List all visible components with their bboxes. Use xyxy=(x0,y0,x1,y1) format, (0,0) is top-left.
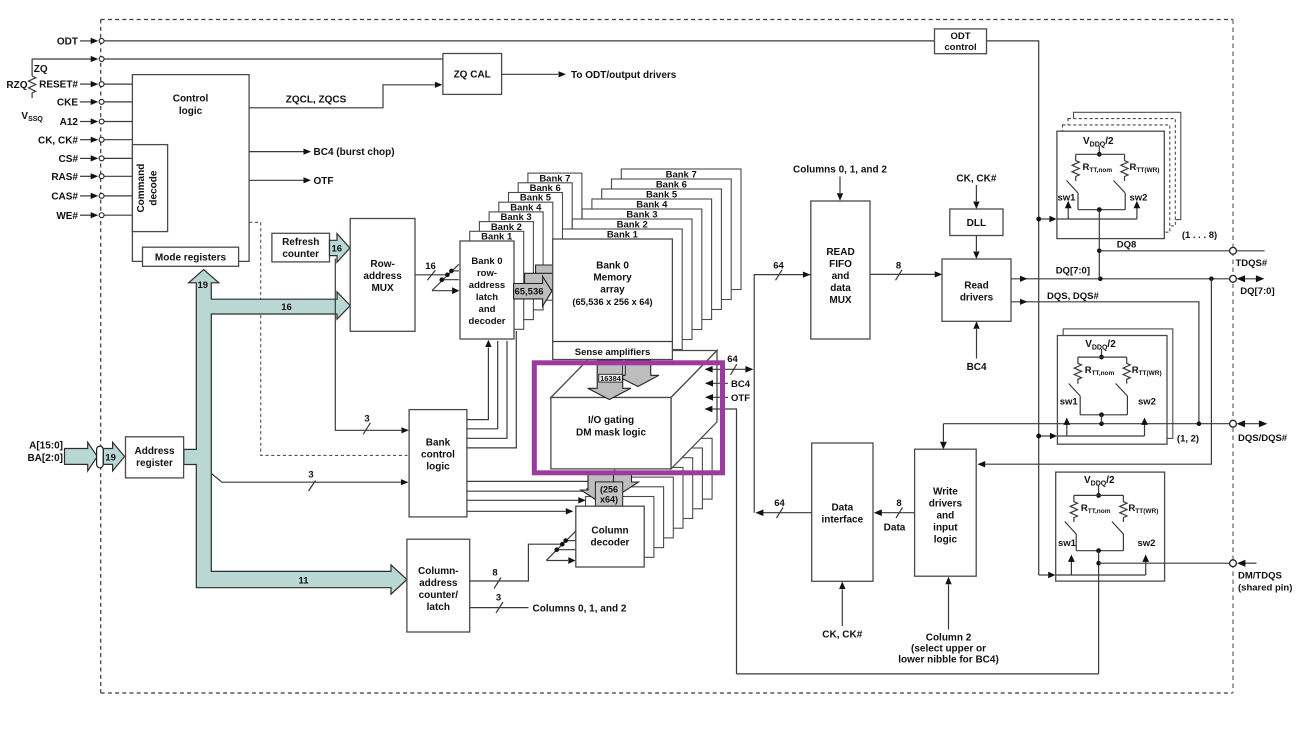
svg-text:address: address xyxy=(469,280,505,291)
circuit3 switch sw2 xyxy=(1112,522,1156,551)
wire ZQCL ZQCS to ZQ CAL xyxy=(249,82,442,108)
svg-text:19: 19 xyxy=(198,280,209,291)
svg-text:counter: counter xyxy=(282,249,319,260)
wire 64 into read fifo xyxy=(773,260,810,280)
svg-text:Bank 1: Bank 1 xyxy=(607,229,639,240)
svg-text:decoder: decoder xyxy=(591,538,630,549)
svg-text:data: data xyxy=(830,283,851,294)
svg-text:ZQ: ZQ xyxy=(34,64,48,75)
pin CS# xyxy=(59,154,133,165)
svg-text:(1, 2): (1, 2) xyxy=(1177,434,1199,445)
IO gating DM mask logic 3D block xyxy=(551,351,717,469)
circuit1 bottom node xyxy=(1078,207,1125,212)
svg-text:DLL: DLL xyxy=(967,218,986,229)
svg-text:DQS/DQS#: DQS/DQS# xyxy=(1238,433,1288,444)
svg-text:Bank: Bank xyxy=(426,438,451,449)
svg-text:logic: logic xyxy=(179,106,203,117)
svg-text:BC4 (burst chop): BC4 (burst chop) xyxy=(314,147,395,158)
svg-text:CK, CK#: CK, CK# xyxy=(956,174,996,185)
pin CKE xyxy=(57,98,133,109)
svg-text:Refresh: Refresh xyxy=(282,237,319,248)
svg-text:OTF: OTF xyxy=(731,393,750,404)
mode registers block xyxy=(143,247,239,266)
bank stack labels latch side xyxy=(481,173,570,242)
circuit1 top rail xyxy=(1076,153,1125,155)
svg-text:input: input xyxy=(933,523,958,534)
svg-text:sw2: sw2 xyxy=(1130,193,1148,204)
svg-text:ZQ CAL: ZQ CAL xyxy=(454,70,491,81)
termination circuit 3 box xyxy=(1056,472,1165,581)
svg-text:Address: Address xyxy=(134,446,174,457)
svg-text:BA[2:0]: BA[2:0] xyxy=(27,453,63,464)
wire to ODT output drivers xyxy=(502,70,677,81)
svg-text:interface: interface xyxy=(821,515,863,526)
DLL block xyxy=(950,209,1003,236)
termination circuit 1 box xyxy=(1057,131,1164,238)
circuit1 resistor RTTnom xyxy=(1072,154,1079,181)
svg-text:Column-: Column- xyxy=(418,566,459,577)
svg-text:Mode registers: Mode registers xyxy=(155,253,227,264)
svg-text:Bank 0: Bank 0 xyxy=(471,256,502,267)
svg-text:decode: decode xyxy=(149,170,160,205)
bank control logic block xyxy=(409,410,467,517)
pad TDQS# xyxy=(1230,247,1268,268)
svg-text:Read: Read xyxy=(964,281,988,292)
svg-text:decoder: decoder xyxy=(469,316,506,327)
svg-text:MUX: MUX xyxy=(829,295,852,306)
svg-text:logic: logic xyxy=(426,462,450,473)
svg-text:3: 3 xyxy=(364,413,369,424)
svg-text:Columns 0, 1, and 2: Columns 0, 1, and 2 xyxy=(793,165,887,176)
wire CK CK# into DLL xyxy=(956,174,996,210)
circuit1 VDDQ/2 xyxy=(1083,136,1114,157)
input arrow A[15:0] BA[2:0] xyxy=(27,440,97,471)
svg-text:row-: row- xyxy=(477,268,497,279)
ZQ CAL block xyxy=(443,54,502,95)
circuit1 enable wire and up arrows xyxy=(1036,201,1140,222)
circuit1 resistor RTTWR xyxy=(1121,154,1128,181)
svg-text:Column: Column xyxy=(591,526,628,537)
svg-text:TDQS#: TDQS# xyxy=(1236,258,1268,269)
svg-text:Column 2: Column 2 xyxy=(926,633,972,644)
svg-text:x64): x64) xyxy=(600,495,618,505)
svg-text:16: 16 xyxy=(425,261,436,272)
svg-text:64: 64 xyxy=(774,498,785,509)
svg-text:RESET#: RESET# xyxy=(39,80,78,91)
svg-text:To ODT/output drivers: To ODT/output drivers xyxy=(571,70,677,81)
wire BC4 into read drivers xyxy=(967,321,987,373)
svg-text:Write: Write xyxy=(933,487,958,498)
svg-text:RAS#: RAS# xyxy=(51,172,78,183)
svg-text:A[15:0]: A[15:0] xyxy=(29,440,63,451)
svg-text:3: 3 xyxy=(308,470,313,481)
circuit1 switch sw1 xyxy=(1058,181,1079,210)
bank select wires to latch stack xyxy=(467,331,516,448)
bank0 latch text xyxy=(469,256,506,327)
pin RESET# xyxy=(39,80,132,91)
65536 bus arrows latch to array xyxy=(514,258,574,306)
svg-text:16: 16 xyxy=(281,302,292,313)
pin A12 xyxy=(60,117,133,128)
svg-text:CK, CK#: CK, CK# xyxy=(822,630,862,641)
svg-text:and: and xyxy=(937,511,955,522)
bank row latch stack planes 7..1 xyxy=(470,173,582,329)
svg-text:CS#: CS# xyxy=(59,154,79,165)
svg-text:array: array xyxy=(600,285,625,296)
circuit3 center tap to DM line xyxy=(1096,551,1101,674)
refresh to row mux teal arrow 16 xyxy=(330,234,350,263)
dashed control path to bank control xyxy=(249,222,407,455)
svg-text:DQ[7:0]: DQ[7:0] xyxy=(1056,265,1090,276)
termination circuit 2 back layer xyxy=(1063,329,1173,439)
svg-text:19: 19 xyxy=(105,452,116,463)
circuit1 switch sw2 xyxy=(1114,181,1148,210)
column address counter latch block xyxy=(407,539,470,632)
DQ8 line to TDQS# pad xyxy=(1099,239,1264,251)
circuit3 enable wire and up arrows xyxy=(1039,555,1149,579)
svg-text:control: control xyxy=(421,450,455,461)
svg-text:(shared pin): (shared pin) xyxy=(1238,583,1292,594)
circuit3 switch sw1 xyxy=(1058,522,1077,551)
svg-text:64: 64 xyxy=(773,260,784,271)
svg-text:ODT: ODT xyxy=(57,37,78,48)
svg-text:READ: READ xyxy=(826,247,854,258)
circuit3 top rail xyxy=(1074,494,1124,496)
pad DQS/DQS# xyxy=(1230,420,1288,444)
termination stack layer 2 dashed xyxy=(1063,125,1170,232)
svg-text:drivers: drivers xyxy=(929,499,963,510)
wire 64 bidirectional IO gating to data bus xyxy=(705,354,754,375)
wire DQS into write drivers top xyxy=(940,424,947,450)
wire 64 data interface to bus xyxy=(755,498,811,518)
svg-text:BC4: BC4 xyxy=(967,362,987,373)
DM mask line bottom xyxy=(737,673,1099,675)
svg-text:latch: latch xyxy=(427,602,450,613)
svg-text:sw2: sw2 xyxy=(1138,397,1156,408)
svg-text:Sense amplifiers: Sense amplifiers xyxy=(575,347,651,358)
svg-text:latch: latch xyxy=(476,292,498,303)
svg-text:sw1: sw1 xyxy=(1060,397,1079,408)
wire DQ feedback into write drivers right xyxy=(977,279,1211,468)
bank0 memory array block with sense amplifiers xyxy=(553,239,673,360)
svg-text:Control: Control xyxy=(173,94,209,105)
circuit3 bottom node xyxy=(1076,548,1123,553)
wire columns label into read fifo xyxy=(793,165,887,201)
address bus trunk teal xyxy=(184,270,407,595)
wire OTF output xyxy=(249,176,333,187)
svg-text:DM/TDQS: DM/TDQS xyxy=(1238,571,1282,582)
bank stack labels memory side xyxy=(607,169,697,240)
dashed chip boundary left xyxy=(100,20,102,694)
svg-text:WE#: WE# xyxy=(56,211,78,222)
read drivers block xyxy=(942,259,1011,321)
wire ODT pad to ODT control xyxy=(57,37,935,48)
pad DM/TDQS xyxy=(1230,560,1293,594)
svg-text:ODT: ODT xyxy=(950,31,970,42)
svg-text:16: 16 xyxy=(332,244,343,255)
svg-text:Memory: Memory xyxy=(593,273,632,284)
write drivers block xyxy=(915,449,977,576)
svg-text:Columns 0, 1, and 2: Columns 0, 1, and 2 xyxy=(533,603,627,614)
svg-text:DM mask logic: DM mask logic xyxy=(576,427,646,438)
svg-text:Bank 0: Bank 0 xyxy=(596,261,629,272)
svg-text:BC4: BC4 xyxy=(731,379,751,390)
svg-text:CK, CK#: CK, CK# xyxy=(38,135,78,146)
circuit2 bottom node xyxy=(1080,412,1127,423)
svg-text:sw1: sw1 xyxy=(1058,538,1077,549)
svg-text:address: address xyxy=(419,578,458,589)
svg-text:I/O gating: I/O gating xyxy=(588,415,634,426)
wire 16 row mux to bank latch fan xyxy=(415,261,459,294)
wire BC4 burst chop output xyxy=(249,147,395,158)
wire DLL to read drivers xyxy=(973,236,979,260)
data interface block xyxy=(812,443,873,581)
control logic U-CTRL xyxy=(132,75,249,262)
wire 3 trunk to bank control xyxy=(211,470,408,492)
command decode block xyxy=(132,145,167,232)
wire 3 columns 0 1 2 xyxy=(470,593,627,615)
svg-text:Row-: Row- xyxy=(370,259,394,270)
svg-text:FIFO: FIFO xyxy=(829,259,852,270)
circuit1 center tap to DQ8 and DQ bus xyxy=(1097,210,1102,279)
svg-text:Command: Command xyxy=(136,164,147,213)
wire OTF into IO gating xyxy=(705,393,750,404)
svg-text:Bank 1: Bank 1 xyxy=(481,232,513,243)
pin RAS# xyxy=(51,172,132,183)
termination circuit 2 box xyxy=(1057,336,1167,445)
svg-text:8: 8 xyxy=(492,568,497,579)
wire BC4 into IO gating xyxy=(705,379,751,390)
dashed chip boundary top xyxy=(101,19,1233,21)
ground VSSQ xyxy=(21,111,43,123)
svg-text:logic: logic xyxy=(934,535,958,546)
svg-text:OTF: OTF xyxy=(314,176,334,187)
dashed pad boundary right xyxy=(1232,20,1234,694)
svg-text:(65,536 x 256 x 64): (65,536 x 256 x 64) xyxy=(572,297,652,307)
input arrow stage 2 with 19 xyxy=(103,442,124,471)
pin WE# xyxy=(56,211,132,222)
wire 8 data write drivers to data interface xyxy=(874,498,915,534)
ODT control block xyxy=(935,29,987,54)
svg-text:lower nibble for BC4): lower nibble for BC4) xyxy=(898,655,999,666)
svg-text:(select upper or: (select upper or xyxy=(911,644,986,655)
wire 8 read fifo to read drivers xyxy=(870,260,942,280)
termination stack layer 3 dashed xyxy=(1068,119,1175,226)
dashed chip boundary bottom xyxy=(101,692,1233,694)
termination stack layer 4 xyxy=(1074,112,1181,219)
wire CK CK# into data interface xyxy=(822,582,862,641)
resistor RZQ external xyxy=(6,59,35,98)
pad DQ7:0 xyxy=(1230,275,1275,297)
circuit2 enable wire and up arrows xyxy=(1036,418,1148,440)
svg-text:drivers: drivers xyxy=(960,293,994,304)
svg-text:A12: A12 xyxy=(60,117,79,128)
svg-text:16384: 16384 xyxy=(600,374,622,383)
memory array stack planes 7..1 xyxy=(563,169,742,350)
DM TDQS pad line xyxy=(1099,562,1230,564)
wire ZQ pad to ZQ CAL xyxy=(32,56,443,75)
svg-text:11: 11 xyxy=(298,575,309,586)
circuit2 resistor RTTWR xyxy=(1123,357,1130,384)
svg-text:Data: Data xyxy=(831,503,853,514)
circuit2 switch sw1 xyxy=(1060,384,1081,415)
wire ODT control to termination circuits xyxy=(987,41,1039,575)
svg-text:and: and xyxy=(832,271,850,282)
svg-text:8: 8 xyxy=(896,260,901,271)
svg-text:RZQ: RZQ xyxy=(6,80,27,91)
svg-text:3: 3 xyxy=(496,593,501,604)
circuit3 resistor RTTnom xyxy=(1070,495,1077,522)
column decoder block xyxy=(576,506,644,567)
svg-text:CAS#: CAS# xyxy=(51,192,78,203)
svg-text:64: 64 xyxy=(727,354,738,365)
svg-text:register: register xyxy=(136,458,173,469)
refresh counter block xyxy=(272,233,330,262)
circuit2 top rail xyxy=(1078,356,1127,358)
data bus vertical 64 xyxy=(754,275,810,513)
svg-text:ZQCL, ZQCS: ZQCL, ZQCS xyxy=(286,95,347,106)
svg-text:DQS, DQS#: DQS, DQS# xyxy=(1047,291,1099,302)
circuit2 VDDQ/2 xyxy=(1085,339,1116,360)
svg-text:counter/: counter/ xyxy=(419,590,459,601)
svg-text:DQ[7:0]: DQ[7:0] xyxy=(1240,286,1274,297)
svg-text:65,536: 65,536 xyxy=(514,287,543,298)
svg-text:sw1: sw1 xyxy=(1058,193,1077,204)
wire DQ7:0 read drivers to pad xyxy=(1011,265,1230,282)
circuit3 resistor RTTWR xyxy=(1120,495,1127,522)
address register block xyxy=(126,437,184,478)
svg-text:Data: Data xyxy=(884,523,906,534)
wire 3 refresh to bank control xyxy=(335,259,409,435)
svg-text:CKE: CKE xyxy=(57,98,78,109)
circuit2 resistor RTTnom xyxy=(1074,357,1081,384)
svg-text:(1 . . . 8): (1 . . . 8) xyxy=(1182,230,1217,241)
column decoder stack planes 7..1 xyxy=(586,438,713,557)
bank select wires to column decoder stack xyxy=(467,481,596,514)
svg-text:MUX: MUX xyxy=(371,283,394,294)
svg-text:DQ8: DQ8 xyxy=(1117,239,1137,250)
read fifo block xyxy=(811,201,870,339)
bank0 row-address latch and decoder block xyxy=(460,241,514,339)
DQS DQS# pad line xyxy=(943,421,1229,426)
highlight rectangle around IO gating xyxy=(534,363,722,473)
svg-text:address: address xyxy=(363,271,402,282)
svg-text:control: control xyxy=(944,42,976,53)
svg-text:8: 8 xyxy=(896,498,901,509)
wire column 2 into write drivers xyxy=(898,577,999,666)
wire 8 column counter to column decoder fan xyxy=(470,531,576,588)
circuit2 switch sw2 xyxy=(1116,384,1156,415)
circuit3 VDDQ/2 xyxy=(1084,475,1115,498)
256x64 bus arrows IO gating to column decoder xyxy=(581,474,639,506)
16384 bus arrows sense amps to IO gating xyxy=(588,360,659,400)
pin CAS# xyxy=(51,192,132,203)
wire DM mask into IO gating xyxy=(704,406,736,674)
pin CK CK# xyxy=(38,135,132,146)
pad ellipse on boundary xyxy=(97,446,104,468)
row address MUX block xyxy=(350,219,415,332)
svg-text:and: and xyxy=(479,304,496,315)
wire DQS read drivers down to pad line xyxy=(1011,291,1199,424)
svg-text:(256: (256 xyxy=(600,484,618,494)
svg-text:sw2: sw2 xyxy=(1138,538,1156,549)
